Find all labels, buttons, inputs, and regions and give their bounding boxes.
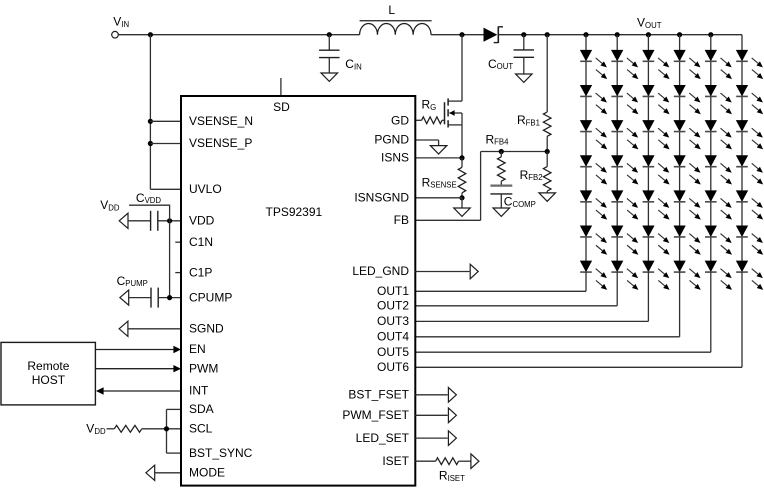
svg-text:PWM: PWM	[189, 361, 218, 375]
svg-text:RSENSE: RSENSE	[422, 175, 457, 189]
svg-text:OUT2: OUT2	[377, 299, 409, 313]
svg-text:OUT6: OUT6	[377, 360, 409, 374]
svg-text:MODE: MODE	[189, 466, 225, 480]
svg-text:C1N: C1N	[189, 235, 213, 249]
svg-text:PGND: PGND	[374, 133, 409, 147]
svg-text:RFB4: RFB4	[486, 132, 510, 146]
svg-text:RFB2: RFB2	[520, 168, 543, 182]
svg-text:INT: INT	[189, 384, 209, 398]
svg-text:LED_GND: LED_GND	[352, 264, 409, 278]
svg-text:VSENSE_P: VSENSE_P	[189, 136, 252, 150]
svg-text:FB: FB	[394, 213, 409, 227]
svg-text:VOUT: VOUT	[637, 16, 662, 30]
svg-text:ISET: ISET	[382, 454, 409, 468]
svg-text:TPS92391: TPS92391	[266, 205, 323, 219]
svg-text:VDD: VDD	[189, 214, 215, 228]
svg-text:BST_SYNC: BST_SYNC	[189, 446, 253, 460]
svg-text:LED_SET: LED_SET	[356, 431, 410, 445]
svg-text:Remote: Remote	[27, 359, 69, 373]
svg-text:VDD: VDD	[86, 422, 106, 436]
svg-text:CIN: CIN	[345, 57, 361, 71]
svg-text:BST_FSET: BST_FSET	[348, 388, 409, 402]
svg-text:GD: GD	[391, 114, 409, 128]
svg-text:C1P: C1P	[189, 265, 212, 279]
svg-text:ISNS: ISNS	[381, 151, 409, 165]
svg-text:VDD: VDD	[100, 198, 120, 212]
svg-text:VIN: VIN	[113, 15, 129, 29]
svg-text:CVDD: CVDD	[136, 191, 162, 205]
svg-text:CCOMP: CCOMP	[504, 195, 536, 209]
svg-text:ISNSGND: ISNSGND	[354, 191, 409, 205]
svg-text:VSENSE_N: VSENSE_N	[189, 114, 253, 128]
svg-text:OUT3: OUT3	[377, 314, 409, 328]
svg-text:PWM_FSET: PWM_FSET	[342, 408, 409, 422]
svg-text:EN: EN	[189, 342, 206, 356]
svg-text:SCL: SCL	[189, 422, 213, 436]
svg-text:HOST: HOST	[32, 373, 66, 387]
svg-text:CPUMP: CPUMP	[189, 290, 232, 304]
svg-text:UVLO: UVLO	[189, 182, 222, 196]
svg-text:CPUMP: CPUMP	[117, 274, 148, 288]
svg-text:SGND: SGND	[189, 322, 224, 336]
svg-text:OUT5: OUT5	[377, 345, 409, 359]
svg-text:SD: SD	[273, 100, 290, 114]
svg-text:SDA: SDA	[189, 402, 214, 416]
svg-text:OUT1: OUT1	[377, 284, 409, 298]
svg-text:RFB1: RFB1	[517, 113, 540, 127]
svg-text:OUT4: OUT4	[377, 330, 409, 344]
svg-text:RG: RG	[422, 98, 437, 112]
svg-text:L: L	[388, 3, 395, 17]
svg-text:COUT: COUT	[488, 57, 513, 71]
svg-text:RISET: RISET	[439, 469, 465, 483]
